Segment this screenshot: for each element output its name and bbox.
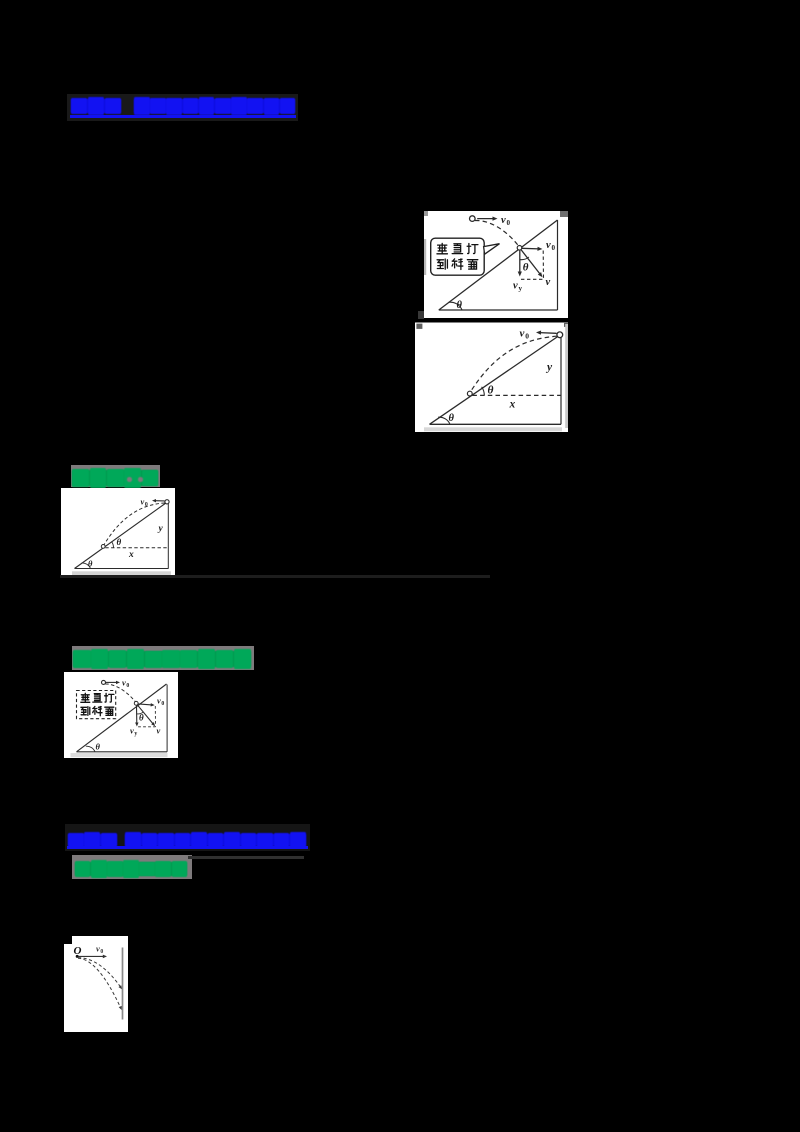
diagram A white panel: [424, 211, 568, 318]
svg-text:0: 0: [525, 332, 529, 341]
resultant v arrow: [521, 250, 540, 275]
G1 gray dot 2: [138, 477, 143, 482]
svg-text:θ: θ: [88, 559, 93, 569]
ball at top: [165, 500, 169, 504]
dashed horizontal x: [472, 394, 561, 396]
faint dark row right of G3: [188, 856, 304, 860]
svg-text:y: y: [545, 362, 553, 374]
svg-text:v: v: [520, 328, 525, 340]
impact angle arc: [136, 712, 143, 714]
faint shadow row under diagram C: [60, 575, 490, 578]
handle top-right: [564, 323, 568, 327]
corner handle left: [424, 211, 428, 216]
base angle arc: [449, 302, 462, 310]
svg-text:θ: θ: [139, 713, 144, 723]
svg-text:x: x: [128, 550, 134, 560]
svg-text:v: v: [501, 215, 506, 226]
incline base: [439, 309, 558, 311]
svg-text:x: x: [509, 399, 516, 411]
ball at top: [557, 332, 563, 338]
incline base: [76, 751, 167, 753]
diagram B: projectile launched left off incline top: [415, 321, 568, 432]
base angle arc: [82, 563, 91, 569]
dashed parallelogram: [138, 706, 155, 727]
landing point: [467, 391, 472, 396]
bottom shadow strip: [72, 571, 171, 575]
diagram D white panel: [64, 672, 179, 758]
svg-text:v: v: [157, 696, 161, 706]
bubble pointer: [484, 244, 500, 255]
green heading G2 gray backdrop: [72, 646, 254, 670]
incline right side: [167, 503, 169, 569]
dashed label box: [76, 691, 115, 719]
svg-text:v: v: [96, 944, 100, 954]
green G3 char blobs: [75, 862, 187, 876]
diagram A bottom-left handle: [418, 311, 424, 319]
incline hypotenuse: [76, 684, 166, 752]
base angle arc: [85, 746, 94, 752]
landing angle arc: [112, 542, 114, 548]
launch arrow v0: [105, 681, 116, 683]
launch arrow v0 left: [155, 500, 165, 502]
impact point: [517, 246, 522, 251]
origin dot: [76, 955, 79, 958]
svg-text:v: v: [546, 277, 551, 288]
svg-text:θ: θ: [449, 413, 455, 424]
svg-text:θ: θ: [523, 262, 529, 274]
heading H2 underline: [67, 846, 308, 849]
incline hypotenuse: [75, 502, 168, 569]
velocity v0 arrow at impact: [138, 704, 152, 705]
svg-text:v: v: [156, 726, 160, 736]
velocity vy arrow: [135, 706, 137, 724]
velocity v0 arrow at impact: [522, 247, 539, 250]
diagram C white panel: [61, 488, 175, 575]
diagram D: small copy of diagram A: [64, 672, 179, 758]
heading H1 underline: [70, 115, 296, 118]
incline right side: [560, 336, 562, 425]
landing angle arc: [482, 387, 485, 396]
base angle arc: [438, 417, 450, 424]
speech bubble: [431, 238, 485, 275]
ball: [101, 680, 105, 684]
landing point: [101, 545, 105, 549]
bubble text line2: [437, 259, 447, 269]
handle top-left: [416, 324, 422, 329]
svg-text:0: 0: [161, 701, 164, 707]
incline right side: [166, 685, 168, 752]
launch arrow v0: [79, 955, 105, 957]
heading H2 blue char blobs: [68, 834, 118, 846]
svg-text:0: 0: [507, 219, 511, 227]
svg-text:0: 0: [126, 683, 129, 689]
svg-text:v: v: [546, 240, 551, 251]
heading H2 dark backdrop: [65, 824, 310, 852]
incline hypotenuse: [439, 220, 558, 310]
dashed horizontal x: [105, 547, 168, 549]
svg-text:θ: θ: [95, 742, 100, 752]
svg-text:v: v: [513, 281, 518, 292]
impact angle arc: [520, 257, 529, 260]
svg-text:y: y: [158, 524, 164, 534]
corner handle right: [560, 211, 568, 217]
resultant v arrow: [137, 705, 153, 724]
right shadow column: [565, 324, 568, 428]
diagram E white panel top: [72, 936, 128, 945]
dashed box text line2: [80, 707, 89, 716]
svg-text:v: v: [130, 726, 134, 736]
incline base: [430, 423, 562, 425]
velocity vy arrow: [519, 251, 521, 273]
svg-text:0: 0: [552, 244, 556, 252]
diagram A: perpendicular impact on incline: [424, 207, 568, 321]
incline right side: [557, 220, 559, 310]
impact point: [134, 701, 138, 705]
wall line: [122, 948, 124, 1020]
trajectory 2 arrowhead: [119, 1006, 122, 1010]
diagram E: projectiles hitting vertical wall: [64, 936, 128, 1032]
diagram C: small copy of diagram B: [61, 488, 175, 575]
green heading G3 gray backdrop: [72, 855, 192, 879]
bubble text line1: [437, 243, 447, 253]
svg-text:θ: θ: [488, 385, 494, 397]
G1 gray dot 1: [127, 477, 132, 482]
dashed trajectory: [105, 684, 135, 701]
green heading G1 gray backdrop: [71, 465, 160, 488]
diagram E white panel main: [64, 944, 128, 1032]
green G2 char blobs: [73, 651, 250, 667]
trajectory 2: [78, 958, 121, 1008]
ball: [470, 216, 476, 222]
svg-text:0: 0: [100, 949, 103, 955]
svg-text:θ: θ: [457, 300, 463, 311]
svg-text:y: y: [519, 284, 523, 292]
dashed parallelogram: [521, 251, 544, 280]
dashed trajectory: [475, 220, 518, 245]
left edge handle bar: [424, 239, 426, 275]
launch arrow v0 left: [540, 332, 557, 335]
diagram B white panel: [415, 323, 568, 433]
trajectory 1 arrowhead: [119, 985, 123, 989]
dashed box text line1: [80, 693, 89, 702]
svg-text:y: y: [134, 731, 137, 737]
green G1 char blobs: [72, 470, 158, 486]
svg-text:v: v: [141, 497, 145, 507]
dashed trajectory: [104, 503, 165, 545]
trajectory 1: [78, 958, 121, 989]
svg-text:θ: θ: [117, 537, 122, 547]
heading H1 dark backdrop: [67, 94, 298, 121]
bottom shadow strip: [424, 427, 562, 431]
incline hypotenuse: [430, 335, 561, 424]
incline base: [75, 568, 169, 570]
heading H1 blue char blobs: [71, 99, 121, 113]
bottom shadow strip: [70, 753, 167, 757]
dashed trajectory: [471, 336, 557, 391]
launch arrow v0: [477, 218, 494, 220]
svg-text:v: v: [122, 678, 126, 688]
